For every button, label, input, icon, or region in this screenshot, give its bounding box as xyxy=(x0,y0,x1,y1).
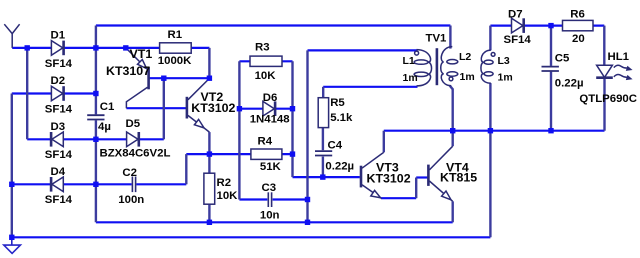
svg-text:L2: L2 xyxy=(459,51,471,63)
svg-text:C3: C3 xyxy=(262,182,277,194)
node junction row1 x96 xyxy=(93,45,98,50)
svg-text:R5: R5 xyxy=(330,97,345,109)
svg-text:C1: C1 xyxy=(100,101,115,113)
svg-text:1m: 1m xyxy=(460,71,475,83)
wire row3 D3 D5 xyxy=(27,138,164,140)
wire R3 row xyxy=(239,60,292,62)
svg-text:D3: D3 xyxy=(51,121,66,133)
svg-text:SF14: SF14 xyxy=(45,149,73,161)
inductor L3 xyxy=(481,50,495,83)
svg-text:SF14: SF14 xyxy=(45,194,73,206)
svg-text:10K: 10K xyxy=(217,190,239,202)
svg-text:KT3102: KT3102 xyxy=(191,101,235,115)
capacitor C5 xyxy=(542,67,559,71)
inductor L1 primary winding xyxy=(414,50,431,86)
svg-text:KT3107: KT3107 xyxy=(106,64,150,78)
wire vertical R5 bottom to C4 xyxy=(322,128,324,151)
diode D3 xyxy=(51,132,63,147)
node junction R4 right xyxy=(290,151,295,156)
wire vertical VT4 emitter lead xyxy=(452,201,454,222)
wire row4 D4 to C2 xyxy=(12,183,132,185)
svg-text:R1: R1 xyxy=(168,29,183,41)
wire C2 to corner xyxy=(136,183,186,185)
wire vertical L1 top column xyxy=(306,50,308,222)
ground xyxy=(4,237,21,253)
wire vertical C5 top lead xyxy=(550,26,552,66)
node junction collector row L3 xyxy=(488,128,493,133)
node junction emitter rail x307 xyxy=(305,220,310,225)
wire vertical C1 column upper xyxy=(95,26,97,115)
wire ground rail xyxy=(12,236,491,238)
svg-text:R4: R4 xyxy=(258,136,273,148)
svg-text:SF14: SF14 xyxy=(45,58,73,70)
svg-text:D5: D5 xyxy=(126,118,141,130)
wire vertical VT2 emitter to R2 top xyxy=(208,132,210,173)
wire vertical C2 corner riser xyxy=(185,154,187,184)
svg-text:0.22µ: 0.22µ xyxy=(325,160,354,172)
diode D7 xyxy=(512,18,524,33)
wire row2 D2 xyxy=(12,92,96,94)
wire vertical left rail xyxy=(11,94,13,238)
wire vertical LED bottom lead xyxy=(603,79,605,131)
node junction row4 left rail xyxy=(9,182,14,187)
wire vertical L2 top lead xyxy=(449,26,451,49)
zener diode D5 xyxy=(127,132,139,147)
capacitor C1 xyxy=(87,115,104,119)
svg-text:C5: C5 xyxy=(555,52,570,64)
svg-text:VT1: VT1 xyxy=(130,47,153,61)
node junction row4 C1 xyxy=(93,182,98,187)
node junction collector row L2 xyxy=(450,128,455,133)
wire VT3 emitter to VT4 base jog xyxy=(381,197,416,199)
svg-text:10n: 10n xyxy=(260,209,280,221)
wire vertical VT3 collector lead xyxy=(383,131,385,153)
svg-text:R6: R6 xyxy=(570,9,585,21)
node junction D7 C5 top xyxy=(548,23,553,28)
resistor R3 xyxy=(250,56,282,66)
diode D1 xyxy=(51,41,63,56)
resistor R1 xyxy=(160,43,192,53)
svg-text:BZX84C6V2L: BZX84C6V2L xyxy=(100,148,171,160)
svg-text:1000K: 1000K xyxy=(158,55,192,67)
svg-text:TV1: TV1 xyxy=(426,32,448,44)
transistor VT3 xyxy=(361,152,384,198)
wire vertical L3 top lead xyxy=(489,26,491,51)
transistor VT4 xyxy=(428,146,452,201)
resistor R2 xyxy=(204,173,215,204)
wire vertical R5 top lead xyxy=(322,87,324,98)
node junction D6 left xyxy=(237,106,242,111)
node junction C4 bottom xyxy=(320,174,325,179)
wire vertical R1 to VT1 base junction xyxy=(208,48,210,78)
svg-text:1m: 1m xyxy=(498,72,513,84)
svg-text:D6: D6 xyxy=(263,92,278,104)
svg-text:5.1k: 5.1k xyxy=(330,112,353,124)
svg-text:1m: 1m xyxy=(403,72,418,84)
svg-text:51K: 51K xyxy=(260,161,282,173)
node junction row2 C1 xyxy=(93,91,98,96)
wire vertical R3 right to VT3 base corner xyxy=(291,61,293,177)
node junction row1 VT1 emitter xyxy=(123,45,128,50)
svg-text:SF14: SF14 xyxy=(504,34,532,46)
wire top rail xyxy=(96,24,451,26)
svg-text:20: 20 xyxy=(572,33,585,45)
wire D6 row xyxy=(239,108,292,110)
svg-text:4µ: 4µ xyxy=(98,121,111,133)
wire row1 antenna to R1 to corner xyxy=(12,47,209,49)
diode D4 xyxy=(51,177,63,192)
svg-text:R2: R2 xyxy=(217,177,232,189)
wire D7-R6 top row xyxy=(490,25,604,27)
inductor L2 secondary winding xyxy=(441,47,458,86)
wire C3 row left xyxy=(239,198,267,200)
node junction emitter rail R2 xyxy=(207,220,212,225)
svg-text:0.22µ: 0.22µ xyxy=(555,77,584,89)
capacitor C3 xyxy=(268,192,271,207)
transistor VT1 xyxy=(126,48,149,108)
wire VT3 base xyxy=(293,176,360,178)
wire vertical R6 to LED xyxy=(603,26,605,65)
svg-text:10K: 10K xyxy=(255,70,277,82)
wire L1 bottom to R5 xyxy=(323,86,417,88)
node junction VT1 base x209.4 xyxy=(207,76,212,81)
antenna WA1 xyxy=(4,24,19,48)
wire L2 bottom jog xyxy=(450,86,453,131)
wire vertical R3 left to C3 xyxy=(238,61,240,199)
node junction VT1 base x163.8 xyxy=(161,76,166,81)
wire VT4 base xyxy=(416,176,427,178)
diode D2 xyxy=(51,86,63,101)
svg-text:R3: R3 xyxy=(255,41,270,53)
wire vertical VT4 base jog riser xyxy=(415,178,417,199)
wire L1 top lead xyxy=(308,49,418,51)
svg-text:L3: L3 xyxy=(498,55,510,67)
svg-text:KT815: KT815 xyxy=(440,170,477,184)
capacitor C2 xyxy=(132,177,135,193)
capacitor C4 xyxy=(315,151,332,155)
svg-text:C2: C2 xyxy=(122,167,137,179)
svg-text:D2: D2 xyxy=(51,75,66,87)
svg-text:100n: 100n xyxy=(118,194,144,206)
svg-text:KT3102: KT3102 xyxy=(367,171,411,185)
svg-text:D7: D7 xyxy=(508,8,523,20)
node junction D6 right xyxy=(290,106,295,111)
wire vertical VT1 base to D5 xyxy=(163,78,165,139)
svg-text:D1: D1 xyxy=(51,30,66,42)
wire vertical C5 bottom lead xyxy=(550,72,552,131)
transistor VT2 xyxy=(187,78,210,132)
svg-text:L1: L1 xyxy=(403,55,415,67)
diode D6 xyxy=(263,101,275,116)
wire vertical C1 column lower xyxy=(95,120,97,222)
node junction ground rail left xyxy=(9,235,14,240)
svg-text:1N4148: 1N4148 xyxy=(250,113,290,125)
wire vertical C4 bottom xyxy=(322,157,324,178)
resistor R6 xyxy=(563,20,594,30)
wire emitter rail xyxy=(96,221,453,223)
wire R4 row xyxy=(186,153,292,155)
node junction C3 right xyxy=(305,197,310,202)
transformer TV1 core xyxy=(436,48,439,85)
wire C3 row right xyxy=(273,198,308,200)
wire vertical R2 bottom xyxy=(208,204,210,222)
node junction row3 C1 xyxy=(93,137,98,142)
svg-text:C4: C4 xyxy=(328,139,343,151)
wire VT2 base xyxy=(126,107,186,109)
node junction R4 left xyxy=(207,151,212,156)
svg-text:QTLP690C: QTLP690C xyxy=(579,93,637,105)
LED HL1 xyxy=(596,65,632,80)
wire collector node row xyxy=(384,130,605,132)
svg-text:SF14: SF14 xyxy=(45,103,73,115)
resistor R4 xyxy=(251,149,282,159)
wire vertical L3 bottom to ground rail xyxy=(489,83,491,237)
svg-text:HL1: HL1 xyxy=(608,51,630,63)
svg-text:D4: D4 xyxy=(51,166,66,178)
node junction row1 x27 xyxy=(25,45,30,50)
wire vertical row1-row3 link xyxy=(26,48,28,139)
node junction collector row C5 xyxy=(548,128,553,133)
resistor R5 xyxy=(318,98,328,128)
wire vertical VT4 collector lead xyxy=(452,131,454,147)
wire VT1 base row xyxy=(149,77,210,79)
